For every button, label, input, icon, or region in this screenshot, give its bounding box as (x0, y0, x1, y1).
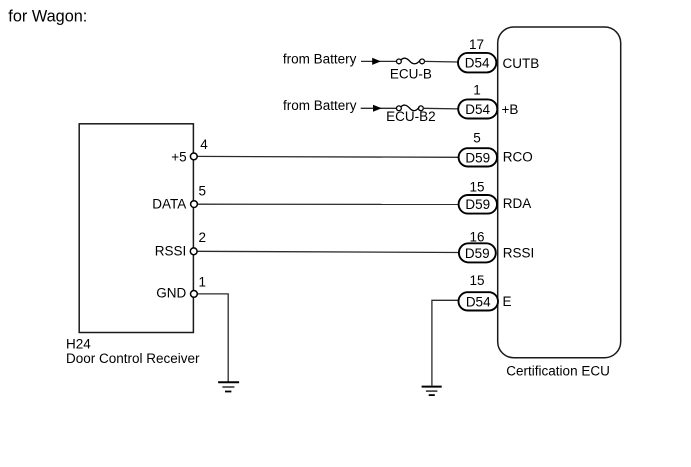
svg-text:16: 16 (469, 230, 484, 245)
svg-text:RDA: RDA (503, 196, 532, 211)
wire fuse ECU-B to connector D54 pin 17 (424, 60, 458, 63)
pin terminal H24 pin 4 (190, 153, 197, 160)
svg-text:+5: +5 (171, 150, 186, 165)
svg-text:Certification ECU: Certification ECU (506, 364, 610, 379)
wire H24 pin 4 to connector D59 pin 5 (194, 155, 459, 158)
ground symbol (ECU side) (422, 387, 442, 396)
svg-text:from Battery: from Battery (283, 98, 357, 113)
wire H24 pin 5 to connector D59 pin 15 (194, 203, 459, 205)
svg-text:ECU-B: ECU-B (390, 66, 432, 81)
svg-text:D59: D59 (465, 150, 490, 165)
pin terminal H24 pin 5 (191, 201, 198, 208)
svg-text:D54: D54 (466, 294, 491, 309)
svg-text:for Wagon:: for Wagon: (8, 7, 87, 25)
pin terminal H24 pin 1 (191, 291, 198, 298)
connector D59 pin 16 (RSSI) (459, 243, 496, 262)
wire connector D54 pin 15 to ground (432, 300, 459, 385)
connector D59 pin 15 (RDA) (459, 195, 497, 214)
connector D54 pin 17 (CUTB) (458, 53, 496, 73)
wire from Battery to fuse ECU-B (with arrow) (361, 58, 397, 65)
wire from Battery to fuse ECU-B2 (with arrow) (361, 105, 397, 112)
svg-text:CUTB: CUTB (503, 56, 540, 71)
fuse ECU-B2 (397, 105, 424, 111)
svg-text:E: E (503, 294, 512, 309)
svg-text:D54: D54 (465, 102, 490, 117)
svg-text:GND: GND (156, 286, 186, 301)
wire H24 pin 1 to ground (194, 294, 228, 382)
component H24 Door Control Receiver (box) (79, 124, 193, 333)
svg-text:RCO: RCO (503, 149, 533, 164)
svg-text:DATA: DATA (152, 196, 186, 211)
wire fuse ECU-B2 to connector D54 pin 1 (423, 107, 458, 110)
svg-text:RSSI: RSSI (503, 245, 535, 260)
svg-text:D59: D59 (465, 197, 490, 212)
connector D54 pin 15 (E) (459, 292, 499, 310)
wire H24 pin 2 to connector D59 pin 16 (194, 251, 459, 252)
svg-text:5: 5 (473, 131, 481, 146)
svg-text:D59: D59 (465, 246, 490, 261)
svg-text:ECU-B2: ECU-B2 (386, 109, 436, 124)
pin terminal H24 pin 2 (190, 248, 197, 255)
svg-text:H24: H24 (66, 337, 91, 352)
svg-text:1: 1 (199, 275, 207, 290)
svg-text:15: 15 (469, 273, 484, 288)
svg-text:from Battery: from Battery (283, 51, 357, 66)
ground symbol (H24 side) (218, 382, 239, 391)
svg-text:RSSI: RSSI (155, 243, 187, 258)
svg-text:Door Control Receiver: Door Control Receiver (66, 351, 200, 366)
component U1 Certification ECU (box) (498, 27, 621, 358)
svg-text:D54: D54 (465, 56, 490, 71)
svg-text:5: 5 (199, 183, 207, 198)
svg-text:4: 4 (200, 137, 208, 152)
svg-text:+B: +B (502, 102, 519, 117)
svg-text:17: 17 (469, 37, 484, 52)
fuse ECU-B (397, 58, 425, 64)
svg-text:15: 15 (469, 180, 484, 195)
connector D54 pin 1 (+B) (458, 99, 497, 118)
svg-text:1: 1 (473, 83, 481, 98)
connector D59 pin 5 (RCO) (459, 148, 497, 166)
svg-text:2: 2 (199, 230, 207, 245)
